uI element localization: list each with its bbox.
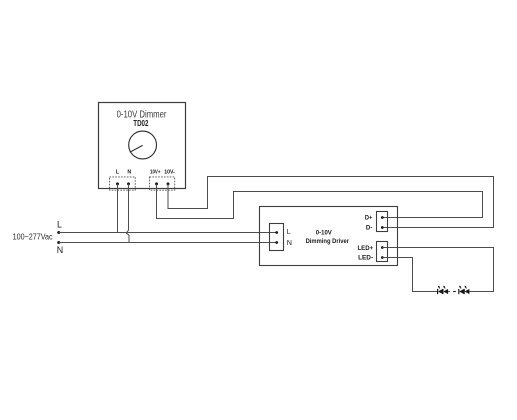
wire: dimmer N pin to mains N line (with crossover jog)	[126, 184, 129, 243]
svg-text:LED-: LED-	[358, 255, 373, 262]
wire: dimmer L pin to mains L line	[117, 184, 119, 233]
driver pin L	[275, 231, 278, 234]
dimmer 0-10V terminal block (dashed)	[150, 177, 175, 190]
dimmer mains terminal block (dashed)	[110, 177, 136, 190]
wire: dimmer 10V- pin to driver D- pin	[168, 177, 494, 228]
wire stub after LED D2	[448, 291, 450, 293]
dimmer terminal pin L	[116, 182, 119, 185]
svg-text:TD02: TD02	[133, 119, 148, 128]
svg-text:100~277Vac: 100~277Vac	[13, 233, 53, 242]
LED D2	[443, 286, 448, 294]
driver LED terminal block	[377, 242, 388, 262]
svg-text:D-: D-	[366, 225, 373, 232]
mains L line start node	[57, 231, 60, 234]
dimmer U1 box	[99, 103, 186, 189]
mains N line start node	[57, 241, 60, 244]
driver mains terminal block	[270, 224, 284, 251]
series continuation dash	[453, 291, 456, 293]
dimmer terminal pin 10V+	[155, 182, 158, 185]
svg-text:L: L	[57, 219, 62, 229]
dimmer dial knob	[129, 131, 157, 159]
svg-text:N: N	[287, 238, 292, 247]
LED D3	[459, 286, 464, 294]
driver pin LED+	[381, 246, 384, 249]
driver U2 box	[260, 207, 398, 266]
svg-text:D+: D+	[365, 214, 373, 221]
wire: driver LED+ pin to LED string anode side	[382, 248, 493, 292]
svg-text:LED+: LED+	[358, 245, 374, 252]
driver dim terminal block	[377, 212, 388, 232]
wire: mains L line to driver L pin	[59, 232, 277, 234]
driver pin LED-	[381, 256, 384, 259]
svg-text:N: N	[127, 169, 131, 175]
driver pin N	[275, 241, 278, 244]
svg-text:10V-: 10V-	[164, 169, 175, 175]
LED D1	[438, 286, 443, 294]
driver pin D-	[381, 226, 384, 229]
driver pin D+	[381, 216, 384, 219]
dimmer terminal pin N	[127, 182, 130, 185]
svg-text:0-10V: 0-10V	[316, 230, 332, 237]
LED D4	[464, 286, 469, 294]
dimmer dial pointer	[130, 145, 143, 152]
wire: dimmer 10V+ pin to driver D+ pin	[157, 184, 483, 219]
wire: driver LED- pin to LED string cathode side	[382, 258, 437, 292]
wire: mains N line to driver N pin	[59, 242, 277, 244]
svg-text:Dimming Driver: Dimming Driver	[306, 238, 350, 245]
svg-text:L: L	[116, 169, 120, 175]
svg-text:10V+: 10V+	[150, 169, 160, 175]
dimmer terminal pin 10V-	[167, 182, 170, 185]
svg-text:L: L	[287, 227, 291, 236]
svg-text:N: N	[57, 245, 63, 255]
